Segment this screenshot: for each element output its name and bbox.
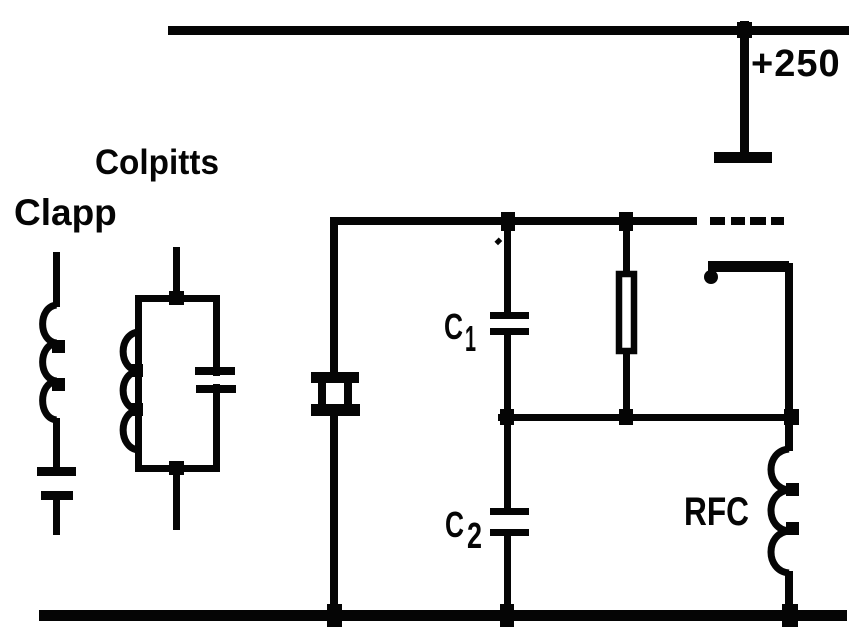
- svg-text:2: 2: [467, 515, 482, 556]
- crystal Y1: top plate: [311, 372, 359, 383]
- Colpitts tank loop: [139, 299, 217, 469]
- node: C2-ground junction: [500, 604, 514, 627]
- capacitor C (Colpitts): gap in right branch: [207, 376, 226, 384]
- tube plate bar: [708, 261, 789, 272]
- wire: C2 bottom lead: [504, 536, 511, 615]
- node: RFC-ground junction: [782, 604, 798, 627]
- node: grid junction on top bus (resistor): [619, 212, 633, 231]
- node: mid junction at resistor: [619, 409, 633, 425]
- power terminal bar (+250): [714, 152, 772, 163]
- svg-text:1: 1: [465, 318, 476, 359]
- wire: ground rail (bottom): [39, 610, 847, 621]
- wire: Clapp bottom stub: [53, 500, 60, 535]
- node: supply tap junction: [737, 22, 752, 38]
- speck: [494, 237, 502, 245]
- wire: plate lead down: [785, 263, 793, 415]
- wire: +V supply rail (top): [168, 26, 849, 35]
- wire: Clapp top lead: [53, 252, 60, 307]
- svg-text:Colpitts: Colpitts: [95, 143, 219, 182]
- wire: resistor top lead: [623, 225, 630, 272]
- wire: C1 bottom lead: [504, 335, 511, 415]
- svg-text:Clapp: Clapp: [14, 192, 117, 233]
- node: C1 top junction: [501, 212, 515, 231]
- capacitor C (Clapp): [37, 467, 76, 476]
- svg-text:+250: +250: [751, 43, 841, 85]
- inductor L (Clapp): [43, 305, 57, 420]
- crystal Y1: body sides: [318, 383, 326, 404]
- wire: gate bus (horizontal, from crystal branch): [330, 217, 697, 225]
- node: Colpitts bottom junction: [169, 461, 184, 475]
- resistor R (grid leak): [619, 274, 634, 351]
- wire: Colpitts bottom stub: [173, 471, 180, 530]
- capacitor C2: [490, 508, 529, 515]
- node: mid junction at RFC: [784, 409, 799, 425]
- crystal Y1: bottom plate: [311, 404, 360, 416]
- svg-text:C: C: [445, 504, 464, 545]
- capacitor C (Colpitts): plates: [195, 367, 235, 375]
- wire: RFC top lead: [785, 421, 793, 451]
- capacitor C1: [490, 312, 529, 319]
- inductor L (Colpitts): [123, 332, 138, 450]
- wire: +250 supply lead: [740, 21, 749, 154]
- inductor RFC: [771, 449, 789, 573]
- node: mid junction at C1/C2: [500, 409, 514, 425]
- wire: RFC bottom lead: [785, 571, 793, 615]
- svg-text:RFC: RFC: [684, 490, 749, 534]
- wire: C1 top lead: [504, 224, 511, 312]
- wire: resistor bottom lead: [623, 354, 630, 415]
- wire: crystal branch lower: [330, 416, 338, 615]
- wire: C2 top lead: [504, 421, 511, 508]
- svg-text:C: C: [444, 306, 463, 347]
- wire: Colpitts top stub: [173, 247, 180, 299]
- wire: Clapp mid lead: [53, 418, 60, 467]
- wire: cathode bus (horizontal mid line): [498, 414, 798, 421]
- wire: dashed continuation: [710, 217, 725, 225]
- tube plate bar: left hook: [704, 270, 718, 284]
- node: Colpitts top junction: [169, 291, 184, 305]
- wire: crystal branch upper: [330, 217, 338, 372]
- node: crystal-ground junction: [327, 604, 342, 627]
